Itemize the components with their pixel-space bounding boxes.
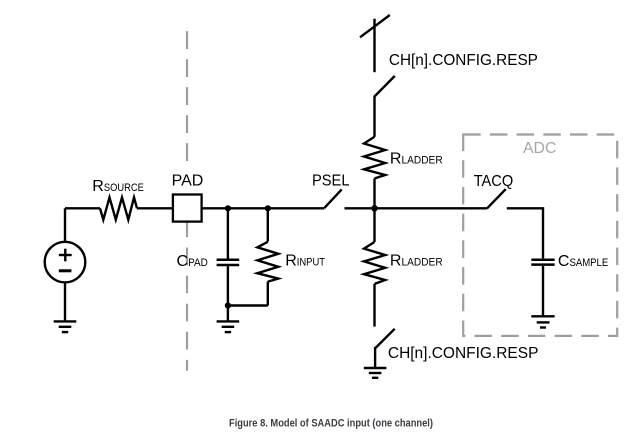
svg-text:ADC: ADC [523, 140, 556, 157]
svg-text:CH[n].CONFIG.RESP: CH[n].CONFIG.RESP [389, 52, 538, 69]
svg-text:PAD: PAD [172, 173, 204, 190]
svg-text:CH[n].CONFIG.RESP: CH[n].CONFIG.RESP [388, 345, 539, 362]
svg-text:TACQ: TACQ [474, 173, 514, 190]
svg-text:PSEL: PSEL [312, 173, 350, 190]
svg-text:Figure 8. Model of SAADC input: Figure 8. Model of SAADC input (one chan… [229, 417, 433, 429]
